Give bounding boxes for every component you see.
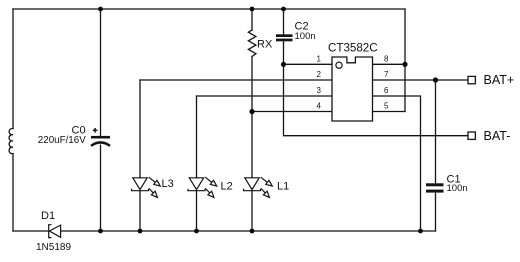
wire C0 column upper <box>100 9 102 136</box>
resistor RX <box>248 30 256 57</box>
wire top rail <box>13 8 405 10</box>
diode D1 <box>49 225 61 238</box>
wire RX top stub <box>251 9 253 30</box>
svg-text:6: 6 <box>384 86 389 95</box>
C0 polarity plus sign <box>93 128 98 133</box>
wire C1 column lower <box>435 193 437 231</box>
wire L2 column <box>196 96 198 231</box>
svg-text:7: 7 <box>384 70 389 79</box>
junction dot top rail / C0 <box>98 7 103 12</box>
svg-text:3: 3 <box>317 86 322 95</box>
svg-text:RX: RX <box>257 39 273 51</box>
junction dot pin1 / C2 net <box>281 62 286 67</box>
capacitor C0 (electrolytic) <box>91 128 110 146</box>
junction dot pin8 / top rail vertical <box>402 62 407 67</box>
svg-text:L1: L1 <box>277 180 289 192</box>
D1 anode triangle <box>49 225 60 237</box>
C0 straight plate <box>91 136 110 139</box>
inductor coil <box>9 128 13 153</box>
junction dot bottom rail / L2 <box>194 229 199 234</box>
svg-text:L3: L3 <box>162 178 174 190</box>
wire pin1 to node <box>284 63 333 65</box>
svg-text:100n: 100n <box>295 31 316 42</box>
wire pin5 <box>373 111 406 113</box>
wire L1 column lower <box>251 191 253 231</box>
svg-text:BAT-: BAT- <box>484 129 511 143</box>
wire C2 top stub <box>283 9 285 34</box>
wire C1 column upper <box>435 80 437 183</box>
LED L1 <box>244 177 273 197</box>
capacitor C1 plates <box>426 183 444 192</box>
svg-text:5: 5 <box>384 102 389 111</box>
wire left edge upper <box>12 9 14 129</box>
LED L2 <box>188 177 217 197</box>
C0 curved plate <box>91 142 110 145</box>
wire C0 column lower <box>100 145 102 231</box>
svg-text:2: 2 <box>317 70 322 79</box>
wire bottom rail right of D1 <box>61 230 436 232</box>
svg-text:BAT+: BAT+ <box>484 73 515 87</box>
junction dot pin7 / C1 column <box>433 77 438 82</box>
svg-text:100n: 100n <box>447 183 468 194</box>
IC CT3582C body (DIP-8) <box>332 57 373 121</box>
wire pin2 to L3 column <box>140 79 332 81</box>
junction dot bottom rail / L1 <box>250 229 255 234</box>
junction dot top rail / C2 <box>281 7 286 12</box>
wire L3 column <box>139 80 141 231</box>
wire pin3 to L2 column <box>197 95 333 97</box>
wire pin4 <box>252 111 332 113</box>
wire left edge lower <box>12 154 14 231</box>
svg-text:8: 8 <box>384 54 389 63</box>
svg-text:220uF/16V: 220uF/16V <box>38 135 86 146</box>
svg-text:1N5189: 1N5189 <box>36 242 71 253</box>
wire pin6 down to bottom rail <box>373 96 421 231</box>
BAT+ terminal square <box>468 76 475 83</box>
LED L3 <box>132 177 161 197</box>
junction dot bottom rail / pin6 column <box>418 229 423 234</box>
pin-1 indicator circle <box>336 62 342 68</box>
wire pin7 to BAT+ <box>373 79 469 81</box>
junction dot pin4 / L1 column <box>249 109 254 114</box>
junction dot top rail / RX <box>250 7 255 12</box>
svg-text:CT3582C: CT3582C <box>328 42 378 55</box>
wire bottom rail left of D1 <box>13 230 49 232</box>
junction dot bottom rail / L3 <box>138 229 143 234</box>
D1 cathode bar <box>49 225 52 238</box>
junction dot bottom rail / C0 <box>98 229 103 234</box>
svg-text:4: 4 <box>317 102 322 111</box>
capacitor C2 plates <box>276 34 293 41</box>
wire pin8 to top rail vertical <box>373 9 406 112</box>
BAT- terminal square <box>468 132 475 139</box>
wire L1 column (RX bottom to LED L1) <box>251 57 253 178</box>
svg-text:L2: L2 <box>221 180 233 192</box>
svg-text:1: 1 <box>317 54 322 63</box>
wire C2 bottom to BAT- corner <box>284 41 469 136</box>
svg-text:D1: D1 <box>41 210 55 222</box>
